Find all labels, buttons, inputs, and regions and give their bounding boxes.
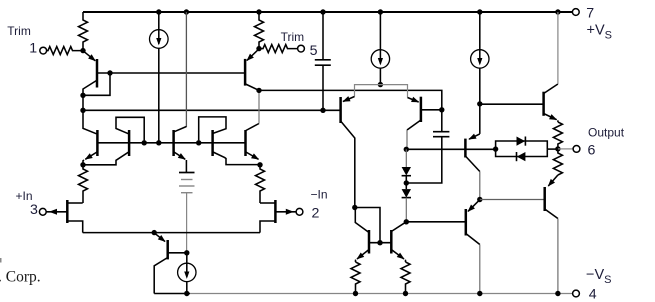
wire clamp to output node (547, 148, 558, 150)
node P between diodes (404, 180, 409, 185)
transistor Q12 (driver PNP) (465, 104, 479, 200)
capacitor C1 (trim compensation) (315, 12, 331, 110)
current source I2 (second stage) (371, 12, 389, 85)
transistor Q14 (output NPN top) (544, 12, 558, 122)
node top rail junction dots (156, 9, 561, 14)
wire bias line 1 (97, 72, 245, 74)
resistor R4 (bottom mirror right) (401, 262, 410, 294)
node E left emitters junction (80, 162, 85, 167)
pin 4 terminal (573, 290, 580, 297)
node U driver collector junction (477, 197, 482, 202)
resistor R7 (left input load) (79, 165, 88, 203)
node K Q7 collector junction (256, 88, 261, 93)
svg-text:+In: +In (16, 189, 33, 203)
node A trim1 junction (80, 48, 85, 53)
wire output NPN base (480, 103, 544, 105)
svg-text:6: 6 (588, 142, 596, 158)
node T driver junction (477, 101, 482, 106)
pin 3 terminal (39, 208, 46, 215)
transistor Q9 (bottom mirror NPN right) (391, 222, 405, 262)
svg-text:1: 1 (29, 41, 37, 57)
current source I1 (input tail) (150, 12, 169, 143)
node bottom rail junction dots (184, 291, 561, 296)
node L cap to bias line 2 (320, 108, 325, 113)
resistor R1 (Trim pin 1) (46, 47, 83, 55)
resistor R2 (Trim pin 5) (259, 45, 298, 53)
resistor R3 (bottom mirror left) (351, 262, 360, 294)
wire bias line 2 (83, 109, 341, 111)
transistor Q3 (mirror NPN diode-connected) (83, 117, 144, 165)
current source I3 (driver) (471, 12, 489, 104)
transistor Q7 (right cascode PNP) (245, 49, 259, 90)
svg-text:Output: Output (588, 125, 625, 139)
transistor Q8 (bottom mirror NPN left) (355, 208, 369, 263)
resistor RA (left trim load) (79, 12, 88, 51)
svg-text:4: 4 (589, 287, 597, 302)
node M second stage emitter junction (378, 82, 383, 87)
wire lower output base line (480, 199, 545, 201)
node V output junction (555, 146, 560, 151)
diode D2 (bias) (402, 183, 411, 222)
svg-text:2: 2 (312, 205, 320, 221)
svg-text:7: 7 (586, 5, 594, 21)
pin 7 terminal (572, 9, 579, 16)
transistor Q1 (left cascode PNP) (83, 51, 97, 95)
node N Q11 base junction (439, 107, 444, 112)
node S bottom mirror base junction (377, 240, 382, 245)
wire driver base line (406, 148, 495, 150)
node J trim5 junction (256, 46, 261, 51)
node G tail source junction (156, 140, 161, 145)
wire cascode output to Q11 base (259, 90, 442, 109)
node X tail junction (152, 230, 157, 235)
transistor Q5 (mirror NPN diode-connected right) (199, 117, 260, 165)
node Q diode stack bottom (404, 219, 409, 224)
svg-text:−VS: −VS (586, 267, 611, 286)
transistor Q15 (output PNP bottom) (545, 175, 558, 294)
svg-text:. Corp.: . Corp. (0, 269, 41, 286)
resistor RB (right trim load) (255, 12, 264, 49)
wire Q1 collector-base loop (83, 73, 110, 95)
wire second stage left collector loop (355, 208, 380, 243)
node Y tail base junction (184, 250, 189, 255)
pin 1 terminal (40, 47, 47, 54)
svg-text:Trim: Trim (7, 24, 31, 38)
transistor Q2 (mirror NPN 1) (83, 130, 97, 163)
svg-text:5: 5 (310, 43, 318, 59)
node B Q1 collector junction (80, 93, 85, 98)
resistor R5 (output top) (553, 122, 562, 149)
wire bottom mirror base (369, 242, 391, 244)
transistor J1 (input JFET +) (46, 200, 82, 233)
capacitor C3 (input stage, stacked) (179, 173, 195, 253)
svg-text:+VS: +VS (587, 22, 612, 41)
pin 2 terminal (296, 208, 303, 215)
wire output node to pin 6 (558, 148, 574, 150)
wire second stage emitter rail (355, 85, 408, 98)
transistor Q6 (mirror NPN right) (246, 130, 259, 159)
wire rail to Q3 collector (185, 12, 187, 127)
wire common source line (83, 232, 260, 234)
resistor R6 (output bottom) (553, 149, 562, 175)
wire mirror base line (97, 142, 245, 144)
transistor Q10 (second stage PNP left) (341, 97, 355, 208)
wire to output PNP base (406, 221, 466, 223)
svg-text:Trim: Trim (281, 30, 305, 44)
transistor Q16 (tail PNP) (154, 233, 187, 293)
svg-text:−In: −In (311, 188, 328, 202)
diode D3 (output clamp top) (496, 137, 548, 150)
pin 6 terminal (573, 146, 580, 153)
pin 5 terminal (298, 45, 305, 52)
transistor Q13 (output PNP left) (466, 200, 480, 293)
transistor Q11 (second stage PNP right) (407, 97, 442, 150)
wire Q6 collector cascode (246, 124, 259, 131)
node R loop junction (352, 205, 357, 210)
diode D4 (output clamp bottom) (496, 149, 548, 161)
transistor Q4 (mirror NPN center) (174, 130, 187, 173)
node W clamp left junction (493, 146, 498, 151)
wire -Vs bottom rail (154, 293, 190, 295)
wire left cascode vertical (83, 95, 97, 134)
diode D1 (bias) (402, 149, 411, 183)
wire +Vs top rail (83, 11, 573, 13)
node H right diode loop junction (196, 140, 201, 145)
node O second stage output junction (404, 147, 409, 152)
node F diode loop junction (142, 140, 147, 145)
capacitor C2 (Miller compensation) (406, 110, 449, 183)
node C loop to bias line 1 (107, 70, 112, 75)
label left-edge text fragment (0, 258, 2, 263)
transistor J2 (input JFET -) (260, 200, 296, 233)
current source I4 (bottom) (178, 253, 196, 294)
resistor R8 (right input load) (256, 165, 265, 203)
node D bias line 2 left junction (80, 108, 85, 113)
node I right emitters junction (257, 162, 262, 167)
svg-text:3: 3 (30, 202, 38, 218)
